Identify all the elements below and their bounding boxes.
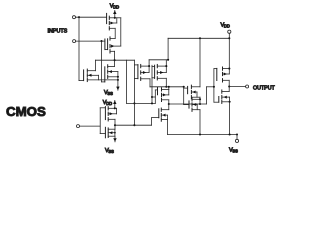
svg-text:DD: DD bbox=[106, 101, 112, 106]
svg-text:SS: SS bbox=[107, 91, 113, 96]
svg-text:CMOS: CMOS bbox=[6, 104, 46, 119]
svg-text:SS: SS bbox=[108, 149, 114, 154]
svg-text:SS: SS bbox=[232, 148, 238, 153]
svg-text:DD: DD bbox=[113, 5, 119, 10]
svg-text:DD: DD bbox=[224, 24, 230, 29]
svg-text:OUTPUT: OUTPUT bbox=[253, 85, 276, 91]
svg-text:INPUTS: INPUTS bbox=[48, 29, 68, 35]
